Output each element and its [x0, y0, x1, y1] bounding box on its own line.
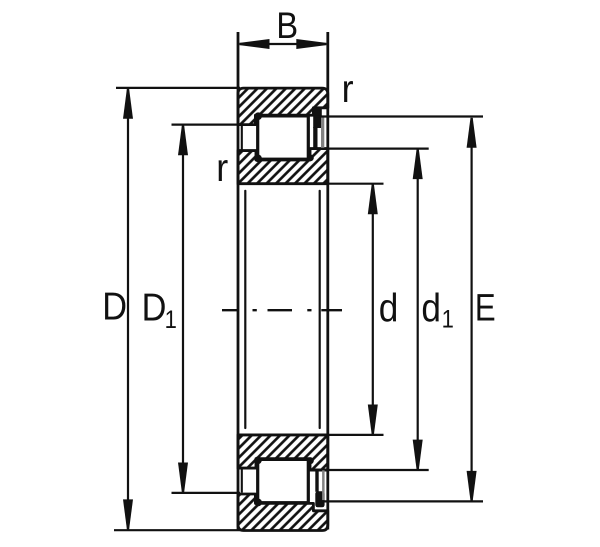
- snap ring top (black): [313, 108, 322, 128]
- dim line d1: [417, 150, 419, 470]
- bore chamfer line right: [319, 191, 321, 428]
- svg-text:1: 1: [442, 305, 454, 333]
- arrow B left: [240, 39, 270, 49]
- roller bottom: [258, 459, 309, 502]
- ext line E bottom: [316, 500, 483, 502]
- cage dot bottom-section top-right: [307, 457, 314, 464]
- dim line d: [372, 185, 374, 435]
- svg-text:E: E: [475, 288, 496, 330]
- ext line d1 top: [326, 148, 429, 150]
- snap ring bottom (black): [315, 491, 324, 507]
- arrow d down: [368, 405, 378, 435]
- svg-text:r: r: [216, 146, 228, 190]
- svg-text:1: 1: [165, 306, 177, 334]
- cage dot bottom-right: [307, 155, 314, 162]
- cage dot bottom-left: [254, 155, 262, 163]
- arrow D up: [123, 89, 133, 119]
- recess line bottom-left: [241, 468, 243, 492]
- cage dot bottom-section bottom-left: [254, 499, 262, 507]
- dim line B: [240, 43, 327, 45]
- arrow D1 down: [178, 463, 188, 493]
- ext line D1 top: [172, 123, 241, 125]
- left face line: [237, 32, 240, 530]
- dim line E: [471, 118, 473, 501]
- ext line d bottom: [326, 434, 384, 436]
- ext line D top: [116, 87, 240, 89]
- arrow D1 up: [178, 125, 188, 155]
- ext line d1 bottom: [326, 469, 429, 471]
- outer ring top section: [238, 88, 328, 125]
- snap ring bottom vertical bar: [315, 470, 318, 492]
- arrow E down: [467, 471, 477, 501]
- svg-text:d: d: [379, 286, 399, 331]
- ext line D1 bottom: [172, 492, 241, 494]
- svg-text:D: D: [142, 285, 167, 329]
- svg-text:d: d: [421, 286, 441, 331]
- right face line: [326, 32, 329, 530]
- recess line top-left: [241, 126, 243, 150]
- centerline: [222, 309, 342, 311]
- bore chamfer line left: [244, 191, 246, 428]
- cage dot bottom-section top-left: [254, 457, 262, 465]
- arrow B right: [296, 39, 326, 49]
- snap ring bottom gray bar: [322, 470, 325, 500]
- arrow E up: [467, 118, 477, 148]
- arrow d1 down: [413, 440, 423, 470]
- svg-text:r: r: [342, 66, 354, 110]
- dim line D: [127, 89, 129, 529]
- roller top: [258, 116, 309, 159]
- svg-text:B: B: [276, 5, 298, 46]
- arrow d1 up: [413, 149, 423, 179]
- arrow d up: [368, 184, 378, 214]
- inner ring top section: [238, 149, 328, 184]
- snap ring top gray bar: [321, 118, 324, 148]
- cage dot top-left: [254, 112, 262, 120]
- snap ring top vertical bar: [313, 127, 317, 148]
- arrow D down: [123, 499, 133, 529]
- dim line D1: [182, 126, 184, 493]
- ext line D bottom: [114, 529, 240, 531]
- ext line d top: [326, 183, 384, 185]
- svg-text:D: D: [102, 284, 127, 328]
- outer ring bottom section: [238, 494, 328, 531]
- inner ring bottom section: [238, 435, 328, 470]
- ext line E top: [314, 115, 484, 117]
